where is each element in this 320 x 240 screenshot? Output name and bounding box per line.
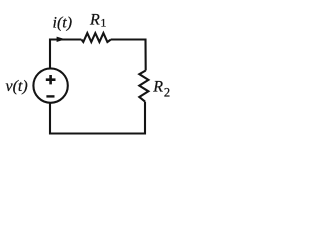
svg-text:R2: R2 bbox=[152, 78, 170, 99]
resistor R2 (zigzag) bbox=[139, 71, 148, 102]
svg-text:v(t): v(t) bbox=[6, 78, 28, 95]
wire: R2 bottom, bottom-right corner, bottom wire, up to source bottom bbox=[50, 102, 145, 134]
current arrow for i(t) bbox=[57, 37, 66, 42]
svg-text:R1: R1 bbox=[89, 11, 106, 29]
voltage source V (circle) bbox=[33, 68, 67, 102]
voltage source plus sign bbox=[46, 75, 56, 84]
resistor R1 (zigzag) bbox=[81, 33, 111, 42]
wire: R1 right to top-right corner down to R2 top bbox=[111, 40, 146, 71]
voltage source minus sign bbox=[46, 95, 54, 97]
svg-text:i(t): i(t) bbox=[53, 14, 73, 31]
wire loop: top-left corner, top wire, right wire, bottom wire, left wire bbox=[50, 40, 81, 69]
